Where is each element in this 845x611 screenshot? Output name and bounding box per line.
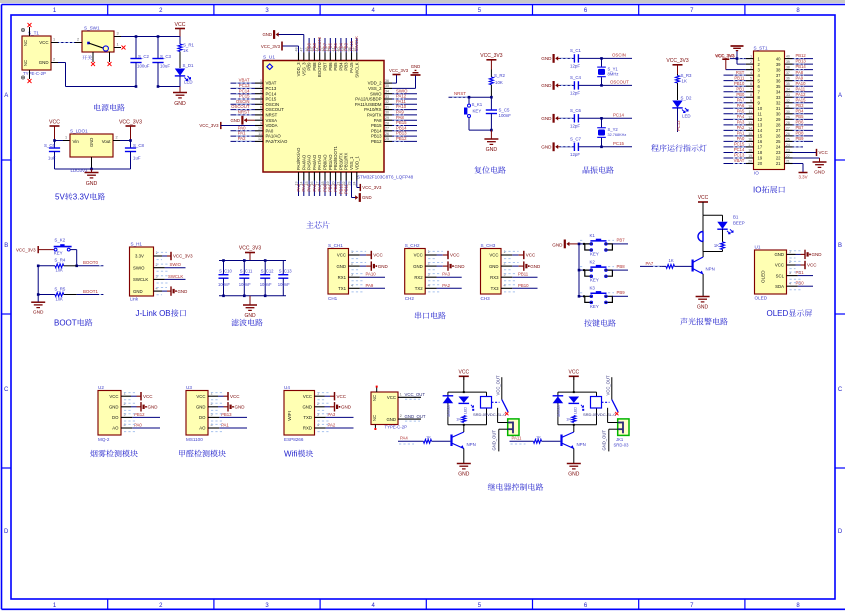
svg-text:4: 4: [123, 423, 125, 427]
svg-text:S_C12: S_C12: [261, 269, 274, 274]
svg-text:SRD-05VDC-SL-C: SRD-05VDC-SL-C: [583, 412, 616, 417]
svg-text:VCC: VCC: [39, 40, 48, 45]
svg-text:36: 36: [776, 78, 781, 83]
connector header (PA11): [601, 419, 629, 452]
svg-text:VCC: VCC: [196, 394, 205, 399]
svg-text:GND: GND: [362, 195, 372, 200]
wire bottom rail to GND: [158, 87, 180, 93]
power flag VCC_3V3 (reset): [480, 53, 502, 70]
svg-text:16: 16: [758, 139, 763, 144]
svg-text:3: 3: [116, 32, 118, 36]
wire/net PB6 at IO pin28: [793, 119, 814, 124]
svg-text:8MHz: 8MHz: [608, 71, 619, 76]
svg-text:GND: GND: [196, 405, 206, 410]
svg-text:S_C4: S_C4: [570, 75, 582, 80]
svg-text:VCC_OUT: VCC_OUT: [405, 392, 426, 397]
svg-text:21: 21: [786, 159, 790, 163]
svg-text:1uF: 1uF: [133, 156, 141, 161]
ground GND BOOT: [31, 302, 45, 315]
svg-text:PA4: PA4: [301, 183, 306, 191]
wire/net PB12 at IO pin40: [793, 53, 814, 58]
svg-text:28: 28: [385, 121, 389, 125]
wire/net PA2 at IO pin14: [724, 125, 746, 130]
svg-text:SRD-05VDC-SL-C: SRD-05VDC-SL-C: [473, 412, 506, 417]
svg-text:22: 22: [776, 156, 781, 161]
wire/net PA15 at IO pin32: [793, 97, 814, 102]
svg-text:CH3: CH3: [481, 296, 491, 301]
wire/net PA11 at IO pin34: [793, 86, 814, 91]
wire/net PA9 (S_CH1): [349, 283, 386, 292]
svg-text:VCC: VCC: [819, 150, 828, 155]
title 电源电路: [94, 104, 125, 111]
svg-text:OLED: OLED: [767, 309, 789, 318]
svg-text:PA5/AO: PA5/AO: [307, 154, 312, 170]
power flag VCC (OLED): [787, 261, 818, 269]
wire/net PA0 (U2): [121, 423, 160, 432]
svg-text:S_H1: S_H1: [131, 242, 143, 247]
wire/net PA10 at U1 right: [392, 104, 417, 109]
display module U1 OLED: [755, 244, 792, 300]
svg-text:VSS_2: VSS_2: [368, 86, 382, 91]
svg-text:PA6: PA6: [312, 183, 317, 191]
svg-text:7: 7: [690, 8, 694, 14]
svg-text:1: 1: [351, 250, 353, 254]
svg-text:SWIO: SWIO: [170, 262, 182, 267]
svg-text:PB14: PB14: [796, 64, 807, 69]
svg-text:PB1: PB1: [328, 183, 333, 192]
svg-text:28: 28: [786, 121, 790, 125]
wire/net PA2 (S_CH2): [425, 283, 462, 292]
svg-text:PB5: PB5: [796, 114, 805, 119]
svg-text:1K: 1K: [183, 48, 188, 53]
svg-text:VCC: VCC: [303, 394, 312, 399]
svg-text:GND: GND: [455, 264, 466, 269]
svg-text:10K: 10K: [495, 80, 503, 85]
svg-text:7: 7: [260, 111, 262, 115]
wire/net PA3 (U4): [315, 412, 354, 421]
net VCC_3V3 at IO pin1: [715, 53, 746, 59]
svg-text:3: 3: [260, 90, 262, 94]
svg-text:PB8: PB8: [312, 62, 317, 71]
svg-text:PA9/TX: PA9/TX: [367, 113, 382, 118]
title 5V转3.3V电路: [55, 193, 105, 202]
power flag VCC: [175, 22, 186, 37]
wire/net PA9 at U1 right: [392, 110, 417, 115]
svg-text:31: 31: [385, 105, 389, 109]
wire/net VBAT to U1 pin 1: [231, 78, 256, 83]
svg-text:D: D: [838, 529, 843, 535]
ground GND (S_CH3): [501, 261, 541, 270]
svg-text:5: 5: [260, 100, 262, 104]
wire/net PA1 to U1 pin 11: [231, 131, 256, 136]
svg-text:S_C1: S_C1: [570, 48, 582, 53]
svg-text:S_SW1: S_SW1: [84, 26, 100, 31]
svg-text:RXD: RXD: [303, 426, 312, 431]
regulator S_LDO1: [70, 129, 113, 174]
title 按键电路: [584, 319, 616, 326]
capacitor S_C1 12pF: [560, 48, 632, 69]
svg-text:5: 5: [478, 603, 482, 609]
svg-text:PB12: PB12: [796, 53, 807, 58]
svg-text:NPN: NPN: [577, 442, 586, 447]
svg-text:1K: 1K: [536, 434, 541, 439]
power GND at U1 VSS_3: [262, 30, 303, 52]
svg-text:6: 6: [750, 82, 752, 86]
svg-text:WIFI: WIFI: [287, 411, 292, 421]
wire/net PB6 at U1 top pin: [328, 38, 333, 53]
svg-text:18: 18: [748, 148, 752, 152]
svg-text:VCC: VCC: [175, 22, 186, 28]
svg-text:3: 3: [155, 275, 157, 279]
wire/net PA3 at IO pin13: [724, 119, 746, 124]
resistor 1K (alarm base): [640, 258, 692, 269]
svg-text:6: 6: [584, 8, 588, 14]
wire/net PA4 at U1 bottom pin: [301, 181, 306, 197]
wire/net PA1 (U3): [208, 423, 247, 432]
svg-text:24: 24: [353, 182, 357, 186]
svg-text:J-Link OB: J-Link OB: [136, 309, 171, 318]
wire/net PA2 (U4): [315, 423, 354, 432]
svg-text:32: 32: [385, 100, 389, 104]
wire/net OSCOUT to U1 pin 6: [231, 104, 256, 109]
svg-text:PB8: PB8: [617, 264, 626, 269]
svg-text:PA11: PA11: [396, 99, 406, 104]
svg-text:DO: DO: [199, 415, 206, 420]
svg-text:VCC: VCC: [337, 253, 346, 258]
svg-text:U1: U1: [755, 244, 761, 249]
svg-text:BEEP: BEEP: [733, 221, 745, 226]
svg-text:2: 2: [155, 263, 157, 267]
svg-text:35: 35: [776, 84, 781, 89]
svg-text:PA5: PA5: [737, 108, 745, 113]
connector S_CH1: [328, 243, 353, 301]
wire LDO Vout to VCC_3V3: [113, 136, 131, 141]
ground GND at U1 VSS_1: [352, 181, 372, 202]
svg-text:16: 16: [748, 137, 752, 141]
svg-text:MS1100: MS1100: [186, 437, 203, 442]
svg-text:S_D1: S_D1: [183, 63, 195, 68]
svg-text:3: 3: [210, 413, 212, 417]
svg-text:VCC_3V3: VCC_3V3: [239, 246, 261, 252]
svg-text:12: 12: [748, 115, 752, 119]
capacitor S_C6 12pF: [560, 108, 632, 129]
wire at IO pin24: [793, 146, 804, 148]
power flag 3.3V at IO pin21: [793, 163, 808, 179]
svg-text:8: 8: [796, 603, 800, 609]
svg-text:36: 36: [786, 77, 790, 81]
svg-text:VDDA: VDDA: [266, 123, 278, 128]
svg-text:17: 17: [758, 145, 763, 150]
svg-text:40: 40: [786, 55, 790, 59]
svg-text:PA6: PA6: [737, 103, 745, 108]
svg-text:34: 34: [776, 89, 781, 94]
svg-text:VCC: VCC: [337, 394, 347, 399]
wire key trunk: [578, 243, 581, 298]
wire/net PB1 (OLED SCL): [787, 270, 814, 279]
svg-text:VBAT: VBAT: [266, 81, 277, 86]
resistor S_R3 1K: [676, 73, 693, 100]
connector TYPE-C-2P (relay power): [371, 386, 421, 430]
svg-text:8: 8: [750, 93, 752, 97]
svg-text:PA9: PA9: [366, 283, 374, 288]
title IO拓展口: [753, 186, 785, 195]
wire/net PB7 at U1 top pin: [322, 38, 327, 53]
svg-text:S_CH2: S_CH2: [405, 243, 420, 248]
svg-text:PC15: PC15: [239, 94, 250, 99]
svg-text:RX1: RX1: [338, 275, 347, 280]
svg-text:10K: 10K: [56, 296, 64, 301]
svg-text:2: 2: [115, 136, 117, 140]
svg-text:37: 37: [786, 71, 790, 75]
power flag VCC_3V3 at IO pin3: [716, 53, 746, 69]
wire/net PB4 at U1 top pin: [338, 38, 343, 53]
svg-text:PB0/AO: PB0/AO: [323, 154, 328, 170]
svg-text:1: 1: [210, 391, 212, 395]
svg-text:PB3: PB3: [344, 42, 349, 51]
wire/net PA8 at IO pin37: [793, 70, 814, 75]
svg-text:33: 33: [786, 93, 790, 97]
svg-text:28: 28: [776, 123, 781, 128]
svg-text:PA2: PA2: [328, 423, 336, 428]
svg-text:29: 29: [776, 117, 781, 122]
svg-text:29: 29: [385, 116, 389, 120]
wire BOOT trunk: [37, 265, 40, 303]
svg-text:A: A: [4, 93, 8, 99]
wire/net PB13 (U3): [208, 412, 247, 421]
ground GND at IO pin22: [793, 158, 827, 176]
svg-text:PA9: PA9: [796, 75, 804, 80]
wire/net PA4 (relay base): [398, 436, 423, 444]
svg-text:TX1: TX1: [338, 286, 346, 291]
power flag VCC_3V3 (BOOT): [16, 246, 54, 253]
svg-text:1K: 1K: [714, 243, 719, 248]
LED (relay PA4): [459, 397, 475, 415]
svg-text:13: 13: [748, 121, 752, 125]
svg-text:9: 9: [260, 121, 262, 125]
svg-text:PB1/AO: PB1/AO: [328, 154, 333, 170]
svg-text:TX2: TX2: [415, 286, 423, 291]
title 晶振电路: [583, 166, 614, 173]
connector S_H1 J-Link: [130, 242, 158, 302]
relay switch (PA11): [606, 375, 619, 422]
svg-text:VCC: VCC: [387, 395, 396, 400]
svg-text:ESP8266: ESP8266: [284, 437, 304, 442]
title 声光报警电路: [680, 318, 727, 325]
svg-text:100nF: 100nF: [499, 113, 512, 118]
svg-text:SWIO: SWIO: [396, 88, 408, 93]
svg-text:VCC_3V3: VCC_3V3: [362, 185, 382, 190]
svg-text:PC14: PC14: [613, 112, 625, 117]
wire/net SWCLK (J-Link): [154, 274, 186, 283]
wire/net NRST: [449, 91, 493, 99]
svg-text:PA15: PA15: [349, 62, 354, 73]
resistor S_R4 10K: [38, 258, 76, 273]
svg-text:35: 35: [786, 82, 790, 86]
svg-text:3: 3: [750, 66, 752, 70]
svg-text:39: 39: [776, 62, 781, 67]
svg-text:PA10/RX: PA10/RX: [364, 107, 381, 112]
svg-text:VCC_3V3: VCC_3V3: [16, 248, 36, 253]
ground GND reset: [484, 130, 498, 153]
svg-text:PB13: PB13: [371, 134, 382, 139]
wire/net PA15 at U1 top pin: [349, 38, 354, 53]
power flag VCC (U3): [208, 392, 240, 400]
wire/net PB14 at IO pin38: [793, 64, 814, 69]
svg-text:VDD_2: VDD_2: [368, 81, 382, 86]
capacitor S_C2 100uF: [130, 37, 149, 88]
svg-text:32: 32: [786, 99, 790, 103]
svg-text:10: 10: [758, 106, 763, 111]
svg-text:PC14: PC14: [734, 147, 745, 152]
svg-text:6: 6: [260, 105, 262, 109]
title J-Link OB接口: [136, 309, 187, 318]
wire/net RST at IO pin4: [724, 70, 746, 75]
transistor NPN (relay PA4): [452, 425, 476, 464]
wire/net PB4 at IO pin30: [793, 108, 814, 113]
power flag VCC_3V3 at U1 VDD_1: [357, 181, 382, 192]
svg-text:S_CH3: S_CH3: [481, 243, 496, 248]
svg-text:RX3: RX3: [490, 275, 499, 280]
svg-text:4: 4: [789, 281, 791, 285]
svg-text:GND: GND: [39, 60, 49, 65]
svg-text:VCC: VCC: [373, 253, 383, 258]
svg-text:S_R4: S_R4: [54, 258, 66, 263]
svg-text:38: 38: [776, 67, 781, 72]
svg-text:1: 1: [53, 38, 55, 42]
LED S_D1: [175, 63, 194, 87]
svg-text:SDA: SDA: [775, 284, 784, 289]
svg-text:PB4: PB4: [338, 62, 343, 71]
connector header (PA4): [491, 419, 519, 452]
svg-text:PA2/TX/AO: PA2/TX/AO: [266, 139, 289, 144]
power GND for S_C6: [541, 114, 560, 123]
svg-text:12pF: 12pF: [570, 152, 580, 157]
svg-text:VCC_3V3: VCC_3V3: [119, 120, 142, 126]
svg-text:PA4: PA4: [737, 114, 745, 119]
svg-text:10: 10: [748, 104, 752, 108]
svg-text:S_Y2: S_Y2: [608, 127, 619, 132]
svg-text:PB1: PB1: [796, 270, 805, 275]
svg-text:VDD_1: VDD_1: [354, 156, 359, 170]
svg-text:PB4: PB4: [796, 108, 805, 113]
wire/net PA12 at IO pin33: [793, 92, 814, 97]
svg-text:11: 11: [758, 112, 763, 117]
svg-text:KEY: KEY: [590, 304, 599, 309]
svg-text:7: 7: [750, 88, 752, 92]
svg-text:S_C5: S_C5: [499, 108, 511, 113]
svg-text:33: 33: [776, 95, 781, 100]
svg-text:37: 37: [776, 73, 781, 78]
svg-text:PB9: PB9: [617, 290, 626, 295]
svg-text:PA1: PA1: [238, 131, 246, 136]
wire/net BOOT0 at U1 top pin: [317, 36, 322, 52]
svg-text:PB4: PB4: [338, 42, 343, 51]
capacitor S_C11 100nF: [239, 261, 253, 296]
wire/net PA2 to U1 pin 12: [231, 136, 256, 141]
wire/net PB0 at U1 bottom pin: [322, 181, 327, 197]
ground GND (J-Link): [154, 286, 188, 295]
svg-text:PB10: PB10: [338, 183, 343, 194]
svg-text:VSS_1: VSS_1: [349, 156, 354, 170]
wire/net PA3 at U1 bottom pin: [296, 181, 301, 197]
svg-text:PA8: PA8: [796, 70, 804, 75]
svg-text:2: 2: [789, 260, 791, 264]
wire/net OSCIN to U1 pin 5: [231, 99, 256, 104]
svg-text:6: 6: [584, 603, 588, 609]
svg-text:3: 3: [265, 603, 269, 609]
svg-text:S_K2: S_K2: [54, 238, 65, 243]
svg-text:100nF: 100nF: [218, 282, 230, 287]
svg-text:VSS_3: VSS_3: [301, 62, 306, 76]
transistor NPN (alarm): [693, 252, 715, 297]
wire/net SWCLK at U1 top pin: [354, 36, 359, 53]
svg-text:OLED: OLED: [761, 270, 766, 283]
svg-text:VCC: VCC: [109, 394, 118, 399]
svg-text:25: 25: [776, 139, 781, 144]
capacitor S_C12 100nF: [260, 261, 274, 296]
svg-text:1: 1: [65, 136, 67, 140]
svg-text:NC: NC: [372, 395, 377, 401]
wire LDO bottom rail: [55, 168, 131, 171]
svg-text:PA10: PA10: [796, 81, 807, 86]
svg-text:2: 2: [428, 261, 430, 265]
svg-text:VCC: VCC: [698, 195, 709, 201]
svg-text:GND: GND: [235, 405, 246, 410]
svg-text:PB12: PB12: [134, 412, 145, 417]
svg-text:PA7: PA7: [737, 97, 745, 102]
svg-text:18: 18: [758, 150, 763, 155]
svg-text:PB9: PB9: [796, 136, 805, 141]
svg-text:RST: RST: [736, 70, 745, 75]
svg-text:PB7: PB7: [796, 125, 805, 130]
svg-text:PA1/AO: PA1/AO: [266, 134, 282, 139]
svg-text:PB2: PB2: [333, 183, 338, 192]
wire/net PC14 to U1 pin 3: [231, 88, 256, 93]
svg-text:PA3: PA3: [737, 119, 745, 124]
svg-text:LED: LED: [184, 80, 193, 85]
svg-text:13: 13: [758, 123, 763, 128]
wire/net PC15 at IO pin17: [724, 142, 746, 147]
svg-text:VCC_OUT: VCC_OUT: [606, 375, 611, 395]
svg-text:GND: GND: [341, 405, 352, 410]
svg-text:VDD_3: VDD_3: [296, 62, 301, 76]
svg-text:PB13: PB13: [796, 59, 807, 64]
svg-text:GND: GND: [378, 264, 389, 269]
svg-text:19: 19: [748, 154, 752, 158]
svg-text:PB12: PB12: [371, 139, 382, 144]
capacitor S_C5 100nF: [486, 97, 511, 130]
svg-text:PA2: PA2: [442, 283, 450, 288]
svg-text:SWCLK: SWCLK: [354, 36, 359, 51]
svg-text:VBAT: VBAT: [734, 158, 745, 163]
ground GND (S_CH1): [349, 261, 389, 270]
LED (relay PA11): [569, 397, 585, 415]
power flag VCC (relay PA4): [459, 369, 470, 392]
svg-text:VCC: VCC: [807, 263, 817, 268]
wire/net PB12 at U1 right: [392, 136, 417, 141]
svg-text:9: 9: [750, 99, 752, 103]
wire alarm top node: [703, 214, 723, 216]
wire/net VBAT at IO pin20: [724, 158, 746, 163]
svg-text:GND: GND: [109, 405, 119, 410]
svg-text:1: 1: [260, 79, 262, 83]
resistor 1K (relay LED PA11): [566, 416, 576, 423]
svg-text:12: 12: [758, 117, 763, 122]
svg-text:LED: LED: [682, 114, 691, 119]
svg-text:VCC: VCC: [526, 253, 536, 258]
svg-text:DO: DO: [112, 415, 119, 420]
module U3 MS1100: [186, 385, 213, 442]
